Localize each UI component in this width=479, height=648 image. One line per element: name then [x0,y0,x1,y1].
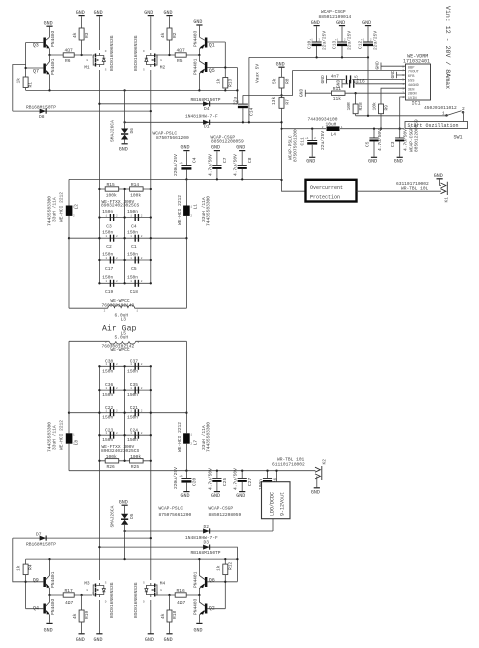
svg-text:GND: GND [374,61,380,69]
svg-text:450J01011012: 450J01011012 [424,105,457,111]
node: R2 to gate line [168,54,170,56]
svg-text:5k: 5k [271,78,277,84]
capacitor C9 220u/25V [173,145,197,181]
wire: base vertical bottom-right [224,581,237,609]
svg-text:D8: D8 [39,114,45,120]
label WCAP-CSGP header2 [211,135,245,145]
ground Q1 [193,19,202,37]
svg-text:4.7u/50V: 4.7u/50V [207,154,213,176]
capacitor C8 4.7u/50V [233,145,253,181]
svg-text:WCAP-PSLC: WCAP-PSLC [159,506,184,512]
svg-text:4.7u/50V: 4.7u/50V [207,468,213,490]
svg-text:GND: GND [164,10,173,16]
resistor R7 13k [271,97,306,192]
svg-text:D1: D1 [204,124,210,130]
svg-text:C20: C20 [191,478,197,486]
node: Q6 collector on rail [198,558,200,560]
diode D4 [191,97,221,112]
ground R18 [164,633,173,643]
svg-text:C10: C10 [306,41,312,49]
svg-text:WE-HCI 2212: WE-HCI 2212 [177,195,183,225]
svg-text:GND: GND [211,493,220,499]
svg-text:BSC016N06NS3G: BSC016N06NS3G [133,582,139,618]
svg-text:+1: +1 [179,162,183,165]
svg-text:L1: L1 [192,204,198,210]
svg-text:L7: L7 [192,440,198,446]
ground K1 [434,173,443,185]
svg-text:GND: GND [211,145,220,151]
svg-text:GND: GND [76,10,85,16]
ground M2 [144,10,154,16]
label WCAP-CSGP lower [209,506,242,518]
capacitor C11 22u/25V [288,129,326,162]
label WCAP-CSGP header [319,9,352,20]
svg-text:D6: D6 [129,128,135,134]
svg-text:875075661200: 875075661200 [292,129,298,162]
ground R2 [164,10,173,28]
capacitor C21 150n [98,405,152,421]
svg-text:K2: K2 [321,459,327,465]
svg-text:5.0uH: 5.0uH [115,335,129,341]
svg-text:L3: L3 [121,316,127,322]
svg-text:220u/25V: 220u/25V [173,467,179,489]
svg-text:Q5: Q5 [209,68,215,74]
wire: TVS column [124,90,126,128]
svg-text:10k: 10k [371,102,377,110]
svg-text:4k: 4k [72,613,78,619]
svg-text:PN4401: PN4401 [192,58,198,75]
svg-text:D2: D2 [204,524,210,530]
svg-text:13k: 13k [271,97,277,105]
svg-text:150n: 150n [102,392,113,398]
svg-text:Vin: 12 - 20V / 8Amax: Vin: 12 - 20V / 8Amax [444,6,451,89]
ground M3 [94,633,103,643]
svg-text:GND: GND [94,637,103,643]
svg-text:Q9: Q9 [33,578,39,584]
IC U1 WE-VDRM box [402,64,430,107]
svg-text:2: 2 [462,106,465,112]
svg-text:22u/25V: 22u/25V [321,31,327,50]
svg-text:R7: R7 [285,99,291,105]
connector K2 [315,459,327,487]
resistor R6 4R7 [63,48,74,64]
transistor Q7 [26,55,56,90]
label WE-FTXF header [101,199,139,209]
svg-text:GND: GND [311,20,320,26]
svg-text:150n: 150n [127,368,138,374]
svg-text:M3: M3 [84,581,90,587]
svg-text:C16: C16 [357,79,365,85]
svg-text:BSC016N06NS3G: BSC016N06NS3G [109,35,115,71]
svg-text:LDO/DCDC: LDO/DCDC [270,492,276,516]
svg-text:4Ω7: 4Ω7 [177,48,185,54]
transistor M2 [133,35,165,71]
wire: IC pin6 stub GND [390,70,406,78]
node: C11 junction [311,128,313,130]
transistor Q4 [26,595,56,623]
wire: switch feed line y=115.8 [356,115,446,117]
svg-text:4.7u/50V: 4.7u/50V [233,154,239,176]
svg-text:R4: R4 [28,564,34,570]
inductor L8 choke [46,341,79,470]
capacitor C30 150n [99,358,150,374]
node: D1 line end at R7 column [280,121,282,123]
svg-text:150n: 150n [102,251,113,257]
node: R28 column junction [354,92,356,94]
svg-text:Protection: Protection [310,195,340,201]
svg-text:4AGND: 4AGND [408,84,420,88]
capacitor C14 [233,95,255,123]
wire: D8 line y=111.1 [13,65,151,112]
transistor Q1 [192,30,225,55]
svg-text:L4: L4 [331,132,337,138]
svg-text:150n: 150n [102,437,113,443]
svg-text:74435583300: 74435583300 [206,422,212,452]
functional box Overcurrent Protection [306,180,357,202]
wire: IC pin2 line [299,89,406,97]
svg-text:WE-HCI 2212: WE-HCI 2212 [58,192,64,222]
svg-text:GND: GND [44,628,53,634]
svg-text:IC1: IC1 [412,101,421,107]
svg-text:PN4403: PN4403 [192,30,198,47]
svg-text:220u/25V: 220u/25V [173,154,179,176]
node: Q5 emitter on rail [198,89,200,91]
svg-text:22u: 22u [233,97,239,105]
svg-text:C14: C14 [248,108,254,116]
svg-text:22u/25V: 22u/25V [373,31,379,50]
transistor Q3 [26,30,56,55]
svg-text:171032401: 171032401 [403,58,430,64]
svg-text:WR-TBL 10L: WR-TBL 10L [401,186,429,192]
svg-text:C3: C3 [106,223,112,229]
svg-text:74435583300: 74435583300 [46,422,52,452]
wire: D3 line y=547.1 [98,546,237,582]
capacitor C3 4.7u/50V [390,119,419,165]
node: R19 at gate line [80,594,82,596]
svg-text:R6: R6 [65,58,71,64]
node: L7 at C21 row [185,412,187,414]
resistor R19 4k [72,595,90,633]
svg-text:74435583300: 74435583300 [206,196,212,226]
wire: upper tank bottom rail [69,307,186,309]
svg-text:BSC016N06NS3G: BSC016N06NS3G [133,35,139,71]
resistor R12 1k [215,558,233,582]
wire: D4 line y=103.8 [99,68,237,104]
svg-text:Q7: Q7 [33,69,39,75]
node: L1 at C1 row [185,237,187,239]
svg-text:150n: 150n [127,415,138,421]
svg-text:150n: 150n [102,230,113,236]
svg-text:+1: +1 [179,475,183,478]
svg-text:1: 1 [442,111,445,117]
label Vaux 5V [254,64,260,83]
svg-text:GND: GND [336,20,345,26]
wire: base vertical bottom-left [24,575,26,609]
svg-text:D7: D7 [36,531,42,537]
node: L7 column at output rail [185,470,187,472]
inductor L7 choke [177,341,212,470]
svg-text:1k: 1k [215,78,221,84]
svg-text:M2: M2 [160,65,166,71]
svg-text:GND: GND [394,159,403,165]
resistor R11 11k [332,86,346,102]
capacitor C35 150n [98,382,152,398]
svg-text:150n: 150n [127,437,138,443]
transistor Q6 [192,559,225,595]
svg-text:GND: GND [299,89,305,97]
svg-text:R2: R2 [172,32,178,38]
svg-text:150n: 150n [127,209,138,215]
resistor R1 1k [16,77,34,90]
capacitor C23 150n [99,427,150,443]
node: Q7 emitter on rail [48,89,50,91]
label L3 header [102,298,135,308]
diode D2 [185,524,218,541]
inductor L4 [322,126,343,138]
svg-text:Q1: Q1 [209,42,215,48]
svg-text:PN4401: PN4401 [50,58,56,75]
ground Q2 [194,623,203,634]
svg-text:R26: R26 [107,464,115,470]
svg-text:875075661200: 875075661200 [156,135,189,141]
svg-text:150n: 150n [127,230,138,236]
capacitor C1 150n [98,230,152,251]
svg-text:33uH /11A: 33uH /11A [52,425,58,450]
svg-text:611101718002: 611101718002 [272,462,305,468]
wire: bottom feedback rail y=559.1 [26,558,239,560]
ground R8 [276,61,285,77]
svg-text:4k: 4k [160,613,166,619]
label IC1 header [403,54,430,65]
svg-text:150n: 150n [102,275,113,281]
label K2 header [272,457,305,468]
wire: L4 output line y=128.7 [281,128,405,130]
svg-text:K1: K1 [444,197,450,203]
svg-text:875075661200: 875075661200 [159,512,192,518]
diode D6 TVS [110,120,136,143]
svg-text:150n: 150n [102,415,113,421]
capacitor C22 150n [69,405,186,421]
wire: base vertical left [24,43,26,78]
wire: Vin top rail y=57.4 [248,56,369,123]
svg-text:4k: 4k [160,32,166,38]
ground C11 [306,157,315,165]
svg-text:150n: 150n [127,251,138,257]
wire: tank mid column upper [124,189,126,283]
svg-text:R12: R12 [228,562,234,570]
svg-text:C18: C18 [130,289,138,295]
capacitor C15 4n7 on IC pin5 [320,73,406,83]
capacitor C10 22u/25V [306,20,327,59]
inductor L5 receiver coil [105,331,139,344]
svg-text:10R: 10R [346,102,352,110]
svg-text:74435583300: 74435583300 [46,196,52,226]
capacitor C19 150n [99,275,150,296]
label WCAP-PSLC header [153,131,190,142]
svg-text:PN4401: PN4401 [192,571,198,588]
svg-text:22u/25V: 22u/25V [320,131,326,150]
note box Start Oszillation [405,122,468,130]
node: R13 bottom [224,89,226,91]
svg-text:22u/25V: 22u/25V [347,31,353,50]
capacitor C13 22u/25V [332,20,353,59]
svg-text:WE-HCI 2212: WE-HCI 2212 [177,422,183,452]
diode D3 [191,539,221,556]
switch SW1 [424,105,465,141]
svg-text:GND: GND [368,159,377,165]
svg-text:5SS: 5SS [408,80,415,84]
svg-text:SMAJ26CA: SMAJ26CA [110,505,116,527]
node: Q6/Q2 junction [198,594,200,596]
svg-text:GND: GND [119,499,128,505]
ground TVS D10 [119,499,128,513]
svg-text:885012109014: 885012109014 [319,14,352,20]
wire: top-left feedback rail y=90.4 [26,89,238,91]
transistor Q2 [192,595,225,623]
transistor Q9 [26,559,56,595]
resistor R9 10k [371,102,389,130]
svg-text:GND: GND [181,145,190,151]
capacitor C2 150n [69,230,186,251]
svg-text:RB168M150TP: RB168M150TP [26,104,56,110]
svg-text:3EN: 3EN [408,88,415,92]
wire: IC pin3 to R9 [381,88,406,104]
resistor R26 100k [99,454,150,470]
transistor M4 [133,580,165,618]
svg-text:4Ω7: 4Ω7 [177,600,185,606]
svg-text:WE-WPCC: WE-WPCC [111,347,130,353]
resistor R17 4R7 [63,588,74,606]
svg-text:BSC016N06NS3G: BSC016N06NS3G [109,582,115,618]
node: feedback rail at TVS column [123,89,125,91]
svg-text:C3: C3 [390,141,396,147]
transistor M1 [84,35,115,71]
svg-text:R8: R8 [285,78,291,84]
capacitor C4 150n [98,209,152,230]
svg-text:R17: R17 [65,588,73,594]
svg-text:C27: C27 [247,478,253,486]
svg-text:Q6: Q6 [209,578,215,584]
svg-text:GND: GND [276,61,285,67]
capacitor C27 4.7u/50V [233,468,253,499]
wire: M2 drain column [150,16,152,283]
svg-text:C11: C11 [299,137,305,145]
wire: M3 gate line [50,594,94,596]
node: loop corner to D4 [236,89,238,91]
node: L8 at C22 row [68,412,70,414]
node: D7 at M4 column [150,537,152,539]
svg-text:Air Gap: Air Gap [102,324,136,334]
capacitor C16 on IC pin4 [335,79,405,88]
svg-text:WE-HCI 2212: WE-HCI 2212 [58,420,64,450]
resistor R5 4R7 [175,48,186,64]
resistor R16 4R7 [175,588,186,606]
svg-text:C5: C5 [364,141,370,147]
label Air Gap [102,324,136,334]
wire: base vertical right + loop [224,42,237,78]
svg-text:Q4: Q4 [33,606,39,612]
node: R18 at gate line [168,594,170,596]
svg-text:GND: GND [320,75,326,83]
svg-text:R11: R11 [333,86,341,92]
resistor R2 4k [160,28,178,55]
svg-text:SW1: SW1 [454,135,463,141]
resistor R4 1k [16,559,34,575]
svg-text:SMAJ26CA: SMAJ26CA [110,120,116,142]
wire: M4 gate line [157,594,199,596]
svg-text:7VOUT: 7VOUT [408,71,420,75]
svg-text:R9: R9 [384,105,390,111]
capacitor C3 150n [99,209,150,230]
node: D1 line at TVS column [123,121,125,123]
svg-text:R18: R18 [172,611,178,619]
node: D8 line at M2 column [150,110,152,112]
svg-text:RB168M150TP: RB168M150TP [191,550,221,556]
svg-text:GND: GND [94,10,103,16]
svg-text:9-12Vout: 9-12Vout [280,492,286,516]
svg-text:C1: C1 [131,244,137,250]
svg-text:R25: R25 [131,464,139,470]
capacitor C18 150n [98,275,152,296]
transistor M3 [84,580,115,618]
wire: D1 input line y=122.3 [125,121,282,123]
svg-text:RB168M150TP: RB168M150TP [26,541,56,547]
svg-text:150n: 150n [127,275,138,281]
svg-text:PN4403: PN4403 [50,30,56,47]
label WE-FTXF header lower [101,444,139,454]
svg-text:4n7: 4n7 [331,73,339,79]
svg-text:885012208059: 885012208059 [209,512,242,518]
node: tank rail tap [280,179,282,181]
svg-text:4Ω7: 4Ω7 [65,600,73,606]
svg-text:C4: C4 [131,223,137,229]
inductor L2 choke [46,179,79,308]
svg-text:R16: R16 [177,588,185,594]
svg-text:GND: GND [145,637,154,643]
svg-text:PN4401: PN4401 [50,571,56,588]
svg-text:C2: C2 [106,244,112,250]
diode D8 [26,104,56,120]
wire: tank supply rail y=179.4 [69,178,282,180]
capacitor C7 4.7u/50V [207,145,227,181]
wire: M1 gate line [50,54,94,56]
svg-text:1N4819HW-7-F: 1N4819HW-7-F [185,114,218,120]
svg-text:GND: GND [144,10,153,16]
svg-text:150n: 150n [102,368,113,374]
svg-text:C13: C13 [332,41,338,49]
svg-text:GND: GND [306,159,315,165]
capacitor C17 150n [99,251,150,271]
wire: D7 line y=538.1 [13,538,151,582]
svg-text:C8: C8 [247,157,253,163]
svg-text:890324023025CS: 890324023025CS [101,448,139,454]
svg-text:R15: R15 [107,182,115,188]
svg-text:Overcurrent: Overcurrent [310,185,343,191]
capacitor C36 150n [99,382,150,398]
svg-text:1k: 1k [16,78,22,84]
svg-text:100k: 100k [106,192,117,198]
capacitor C20 220u/25V [173,467,197,499]
svg-text:4.7u/50V: 4.7u/50V [233,468,239,490]
svg-text:C17: C17 [105,266,113,272]
svg-text:R13: R13 [228,79,234,87]
svg-text:2BON: 2BON [408,93,417,97]
svg-text:C5: C5 [131,266,137,272]
svg-text:1N4819HW-7-F: 1N4819HW-7-F [185,535,218,541]
svg-text:4k: 4k [72,32,78,38]
node: R8/R7 divider [280,94,282,96]
resistor R8 5k [271,77,290,97]
